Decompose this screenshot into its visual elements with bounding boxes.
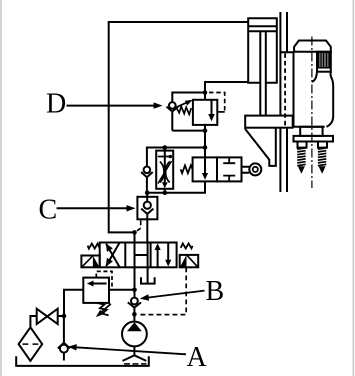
- machine column hidden edge (dashed): [284, 53, 286, 127]
- node: junction pump outlet pilot tap: [132, 312, 137, 317]
- node: junction regulator top: [163, 145, 168, 150]
- drill head cap: [294, 41, 331, 52]
- check valve A ball: [60, 345, 68, 353]
- hydraulic cylinder body: [248, 18, 277, 83]
- flow regulator valve body: [156, 151, 173, 189]
- directional valve position dividers: [125, 243, 150, 268]
- slide table: [245, 116, 293, 128]
- oil tank box: [16, 356, 149, 366]
- wire: A port drop into valve: [109, 22, 249, 243]
- sequence valve D body: [193, 100, 217, 125]
- directional valve center position paths: [135, 243, 148, 268]
- flow regulator outlet arrow: [162, 182, 168, 188]
- shut-off valve (bowtie): [37, 309, 48, 324]
- check valve (loop bypass) circle: [144, 167, 151, 174]
- check valve (bypass of D) seat: [167, 107, 179, 112]
- travel valve body left square: [193, 157, 217, 181]
- wire: valve C out down to directional valve: [146, 214, 148, 243]
- directional valve right position arrows: [158, 243, 169, 268]
- label A arrow: [76, 347, 187, 354]
- drill bit left tip: [298, 166, 305, 174]
- relief valve flow arrow: [93, 283, 107, 285]
- cylinder rod: [260, 31, 266, 115]
- relief valve pilot (dashed): [96, 271, 112, 289]
- svg-text:A: A: [187, 342, 208, 373]
- label B arrow: [148, 291, 205, 298]
- node: junction bypass bottom: [203, 128, 208, 133]
- label C arrow: [57, 207, 128, 209]
- relief valve adjust arrow: [101, 304, 111, 313]
- page left edge line: [0, 0, 2, 376]
- drill head motor fins: [317, 52, 331, 72]
- flow regulator adjust arrow: [158, 161, 172, 184]
- travel valve blocked position symbols: [223, 157, 235, 181]
- flow regulator compensator T-bar: [158, 156, 171, 158]
- pump suction strainer: [123, 355, 147, 361]
- wire: relief inlet from P line: [109, 289, 135, 291]
- node: junction loop top at main line: [203, 145, 208, 150]
- travel valve roller: [249, 163, 261, 175]
- check valve B ball: [131, 298, 138, 305]
- drill bit right thread: [318, 148, 326, 166]
- node: junction drain: [62, 314, 67, 319]
- directional valve left spring: [88, 244, 100, 249]
- wire: directional valve P port down: [134, 267, 136, 297]
- drill head body: [294, 52, 334, 127]
- wire: down to sequence valve D: [205, 82, 248, 100]
- svg-text:D: D: [46, 89, 66, 120]
- wire: directional valve T port down: [147, 267, 149, 283]
- wire: into valve C: [146, 193, 148, 202]
- solenoid right box: [180, 255, 199, 267]
- travel valve spring: [181, 165, 193, 173]
- filter diamond: [19, 327, 43, 361]
- travel valve body right square: [217, 157, 242, 181]
- drill chuck right: [318, 142, 327, 148]
- check valve B seat: [128, 302, 141, 307]
- check valve (bypass of D) circle: [169, 102, 176, 109]
- directional valve body: [100, 243, 177, 268]
- relief valve spring: [98, 303, 109, 315]
- wire: bowtie connections: [30, 316, 64, 327]
- wire: D valve out down to flow-control loop: [204, 125, 206, 148]
- wire: regulator bottom stub: [164, 189, 166, 193]
- pump A outlet triangle: [127, 322, 142, 331]
- directional valve left position crossed arrows: [106, 243, 119, 267]
- travel valve open-path arrow: [204, 157, 206, 173]
- wire: main line into travel valve: [204, 148, 206, 158]
- drill bit right tip: [319, 166, 326, 174]
- drill head axis (dash-dot): [311, 37, 313, 189]
- drill chuck left: [298, 142, 307, 148]
- cylinder piston: [248, 26, 277, 31]
- sequence valve D spring: [177, 106, 192, 114]
- pilot line from right solenoid (dashed): [141, 268, 187, 315]
- flow regulator center flow line: [164, 148, 166, 184]
- solenoid left box: [81, 256, 99, 268]
- machine column: [280, 12, 294, 192]
- cam dog: [245, 128, 275, 166]
- node: junction regulator bottom: [163, 190, 168, 195]
- flow regulator throttle arcs: [160, 162, 170, 183]
- node: junction P with relief inlet: [132, 288, 137, 293]
- svg-text:B: B: [206, 276, 225, 307]
- relief valve body: [83, 278, 109, 303]
- svg-text:C: C: [39, 194, 58, 225]
- tank symbol at T port: [141, 277, 155, 283]
- node: junction bypass top: [203, 90, 208, 95]
- wire: check valve A into tank: [63, 353, 65, 361]
- drill bit left thread: [297, 148, 305, 166]
- check valve C seat: [141, 209, 153, 214]
- wire: B check to pump: [133, 308, 135, 322]
- check valve A seat: [58, 343, 70, 349]
- pump A circle: [122, 322, 147, 347]
- wire: drain to check valve A: [63, 316, 65, 343]
- valve C pilot dashes: [137, 220, 141, 231]
- sequence valve D flow path arrow: [211, 100, 213, 115]
- pilot-operated check valve C body: [137, 197, 157, 220]
- sequence valve D adjust arrow: [176, 101, 191, 108]
- sequence valve D pilot line (dashed): [209, 93, 225, 112]
- node: junction loop bottom left: [145, 190, 150, 195]
- label D arrow: [67, 105, 155, 107]
- drill head spindle box: [300, 127, 322, 136]
- node: junction A-port: [132, 230, 137, 235]
- page right edge line: [352, 0, 354, 376]
- pump suction line: [133, 346, 135, 355]
- wire: bypass loop of valve D: [172, 93, 205, 131]
- drill head plate: [294, 136, 334, 142]
- travel valve roller stem: [242, 167, 250, 173]
- wire: relief outlet to drain line: [64, 290, 83, 316]
- wire: flow-control loop bottom line: [147, 181, 205, 192]
- check valve C ball: [144, 202, 151, 209]
- wire: loop check branch: [147, 148, 205, 193]
- directional valve right spring: [181, 243, 193, 248]
- check valve (loop bypass) seat: [141, 172, 153, 177]
